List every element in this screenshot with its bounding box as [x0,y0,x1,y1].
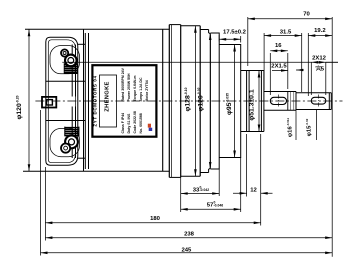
svg-text:245: 245 [181,248,192,254]
svg-text:No. 0001568: No. 0001568 [139,113,143,133]
svg-text:ZHENGKE: ZHENGKE [104,81,110,111]
svg-text:16: 16 [275,43,282,49]
svg-text:180: 180 [150,216,161,222]
svg-text:Power 200W 50H: Power 200W 50H [127,73,131,101]
svg-text:ZYT DCMOTORS 04: ZYT DCMOTORS 04 [92,75,97,126]
svg-text:Motor ZYT54: Motor ZYT54 [145,80,149,101]
svg-text:2X1.5: 2X1.5 [271,64,287,70]
svg-text:238: 238 [184,232,195,238]
svg-text:Torque 0.64N.m: Torque 0.64N.m [133,76,137,102]
svg-text:Duty S1 INS: Duty S1 INS [127,113,131,134]
svg-text:Amps 1.2A DC: Amps 1.2A DC [139,77,143,101]
svg-text:Code 2022.08: Code 2022.08 [133,111,137,133]
svg-text:φ51.3±0.1: φ51.3±0.1 [249,89,256,120]
svg-text:31.5: 31.5 [280,30,292,36]
svg-text:70: 70 [303,12,310,18]
svg-text:2X12: 2X12 [312,56,326,62]
svg-text:0: 0 [200,186,202,190]
svg-text:17.5±0.2: 17.5±0.2 [223,29,247,35]
svg-text:0: 0 [214,201,216,205]
svg-text:Rated 3000RPM 24V: Rated 3000RPM 24V [121,67,125,101]
svg-text:19.2: 19.2 [314,28,326,34]
svg-text:12: 12 [250,187,257,193]
svg-text:Class F IP44: Class F IP44 [121,113,125,134]
